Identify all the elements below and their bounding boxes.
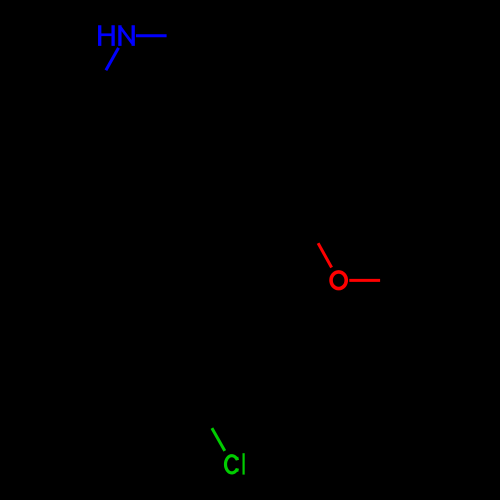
bond O-aryl (red half) bbox=[318, 243, 332, 267]
atom label N (HN) bbox=[100, 25, 134, 46]
carbon skeleton (black on black, invisible) bbox=[86, 36, 419, 428]
bond N-CH2 (blue half) bbox=[106, 48, 119, 70]
bond N-CH3 (blue half) bbox=[136, 34, 167, 37]
letter l bbox=[243, 453, 245, 474]
bond O-CH3 (red half) bbox=[349, 279, 380, 282]
atom label O bbox=[331, 272, 346, 289]
bond aryl-Cl (green half) bbox=[212, 428, 225, 451]
atom label Cl bbox=[226, 453, 244, 474]
wire: C-C skeleton bonds bbox=[86, 36, 419, 428]
letter C bbox=[226, 456, 239, 473]
letter H bbox=[100, 25, 113, 46]
letter N bbox=[120, 25, 133, 46]
